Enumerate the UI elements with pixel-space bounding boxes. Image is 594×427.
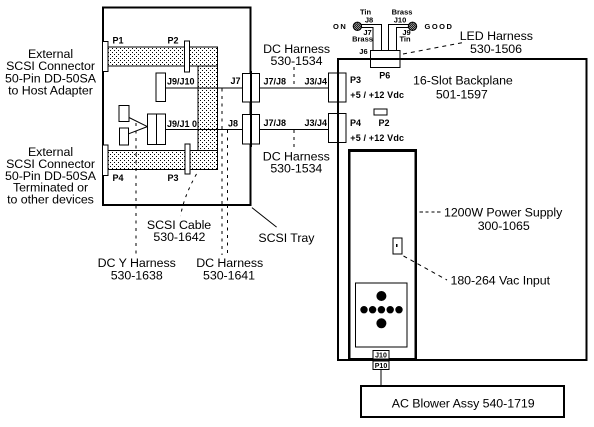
svg-text:J10: J10: [394, 16, 407, 25]
dashed DC Y harness: [135, 123, 137, 255]
LED ON: [353, 22, 361, 30]
svg-text:P4: P4: [113, 173, 124, 183]
SCSI cable lower band: [108, 151, 218, 170]
connector J3/J4 lower (P4): [329, 114, 347, 143]
AC blower box: [361, 386, 564, 417]
svg-text:J3/J4: J3/J4: [305, 118, 328, 128]
label 1200W Power Supply: [420, 211, 444, 213]
connector J9/J10 upper: [156, 73, 165, 101]
svg-text:P1: P1: [113, 36, 124, 46]
LED wire J7: [361, 28, 373, 52]
LED wire J9: [397, 28, 409, 52]
connector J7: [242, 74, 259, 103]
svg-text:J9/J1 0: J9/J1 0: [167, 119, 197, 129]
svg-text:J7/J8: J7/J8: [264, 118, 287, 128]
svg-text:J8: J8: [365, 16, 373, 25]
svg-text:530-1534: 530-1534: [271, 54, 323, 68]
connector P10: [373, 361, 389, 370]
AC input connector: [393, 238, 402, 254]
dashed SCSI cable pointer: [181, 174, 197, 216]
connector P2 small: [374, 109, 387, 115]
backplane border through J3/J4: [337, 71, 339, 146]
wire J9/J10 lower to J8: [166, 128, 243, 130]
svg-text:530-1642: 530-1642: [153, 230, 205, 244]
wire J7 to J3/J4: [260, 87, 329, 89]
svg-text:GOOD: GOOD: [425, 22, 454, 31]
svg-text:530-1506: 530-1506: [470, 42, 522, 56]
SCSI cable upper band: [108, 47, 218, 66]
connector J3/J4 upper (P3): [329, 73, 347, 102]
fan box: [356, 283, 408, 347]
svg-text:J6: J6: [359, 47, 367, 56]
LED harness pointer: [403, 43, 463, 55]
svg-text:LED Harness: LED Harness: [460, 29, 533, 43]
svg-text:530-1641: 530-1641: [203, 269, 255, 283]
svg-text:300-1065: 300-1065: [478, 219, 530, 233]
svg-text:530-1638: 530-1638: [111, 269, 163, 283]
backplane box: [338, 59, 587, 360]
connector J8: [243, 114, 260, 144]
SCSI tray box: [103, 8, 251, 206]
svg-text:P3: P3: [350, 75, 361, 85]
wire P10 to blower: [380, 370, 382, 387]
svg-text:P2: P2: [379, 118, 390, 128]
power supply box: [349, 151, 416, 360]
svg-text:P3: P3: [168, 173, 179, 183]
dashed leader DC harness 530-1641 (right): [227, 130, 229, 255]
Vac input pointer: [404, 256, 448, 280]
wire J9/J10 upper to J7: [166, 87, 243, 89]
svg-text:501-1597: 501-1597: [436, 87, 488, 101]
SCSI cable vertical leg: [198, 66, 218, 151]
svg-text:SCSI Tray: SCSI Tray: [258, 231, 315, 245]
fan dot top: [376, 291, 386, 301]
connector J10: [373, 351, 389, 360]
dashed pointer top: [293, 67, 295, 88]
svg-text:J8: J8: [228, 118, 238, 128]
Y harness stub lower: [119, 128, 128, 145]
svg-text:AC Blower Assy 540-1719: AC Blower Assy 540-1719: [392, 397, 535, 411]
fan dot bottom: [376, 318, 386, 328]
fan dot row: [360, 306, 367, 313]
svg-text:530-1534: 530-1534: [270, 162, 322, 176]
svg-text:J3/J4: J3/J4: [305, 77, 328, 87]
svg-text:+5 / +12 Vdc: +5 / +12 Vdc: [350, 133, 404, 143]
svg-text:+5 / +12 Vdc: +5 / +12 Vdc: [350, 90, 404, 100]
svg-text:Tin: Tin: [399, 35, 411, 44]
svg-text:to other devices: to other devices: [7, 193, 94, 207]
svg-text:J7: J7: [231, 76, 241, 86]
svg-text:P2: P2: [168, 36, 179, 46]
svg-text:P6: P6: [379, 70, 390, 80]
LED GOOD: [408, 22, 416, 30]
svg-text:J10: J10: [375, 353, 387, 360]
svg-text:P10: P10: [375, 363, 388, 370]
wire J8 to J3/J4 lower: [260, 128, 329, 130]
svg-text:1200W Power Supply: 1200W Power Supply: [444, 206, 563, 220]
svg-text:J7/J8: J7/J8: [264, 77, 287, 87]
dashed pointer bottom: [293, 130, 295, 149]
svg-text:P4: P4: [350, 118, 361, 128]
LED wire J10: [389, 24, 409, 51]
connector P1: [103, 42, 108, 72]
connector P2: [184, 41, 189, 72]
svg-text:180-264 Vac Input: 180-264 Vac Input: [451, 274, 551, 288]
svg-text:16-Slot Backplane: 16-Slot Backplane: [413, 73, 513, 87]
SCSI tray pointer: [252, 208, 277, 228]
LED wire J8: [361, 24, 382, 51]
connector P3: [185, 144, 190, 174]
svg-text:Brass: Brass: [352, 35, 373, 44]
connector J9/J10 lower: [147, 114, 165, 144]
svg-text:to Host Adapter: to Host Adapter: [8, 83, 93, 97]
dashed leader DC harness 530-1641 (left): [221, 89, 223, 256]
Y harness stub upper: [119, 105, 129, 121]
svg-text:J9/J10: J9/J10: [167, 77, 195, 87]
Y harness wires: [129, 118, 147, 127]
tray border through J7/J8: [250, 71, 252, 147]
connector P4: [103, 145, 108, 176]
svg-text:ON: ON: [333, 22, 347, 31]
connector P6: [371, 51, 400, 68]
